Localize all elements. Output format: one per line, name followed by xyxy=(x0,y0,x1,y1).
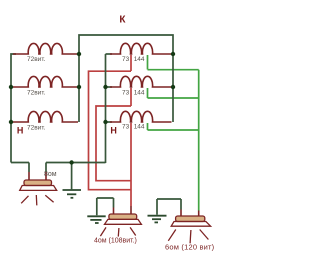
svg-text:73: 73 xyxy=(122,90,130,97)
svg-text:К: К xyxy=(119,15,126,26)
svg-text:8ом: 8ом xyxy=(44,171,57,178)
svg-text:144: 144 xyxy=(134,124,145,131)
svg-text:144: 144 xyxy=(134,90,145,97)
svg-text:Н: Н xyxy=(17,126,24,136)
svg-text:73: 73 xyxy=(122,56,130,63)
svg-text:72вит.: 72вит. xyxy=(27,56,46,63)
svg-text:6ом (120 вит): 6ом (120 вит) xyxy=(165,243,215,252)
svg-text:Н: Н xyxy=(110,125,117,135)
svg-text:72вит.: 72вит. xyxy=(27,90,46,97)
svg-text:144: 144 xyxy=(134,56,145,63)
svg-text:72вит.: 72вит. xyxy=(27,124,46,131)
svg-text:4ом (108вит.): 4ом (108вит.) xyxy=(94,237,137,244)
svg-text:73: 73 xyxy=(122,124,130,131)
